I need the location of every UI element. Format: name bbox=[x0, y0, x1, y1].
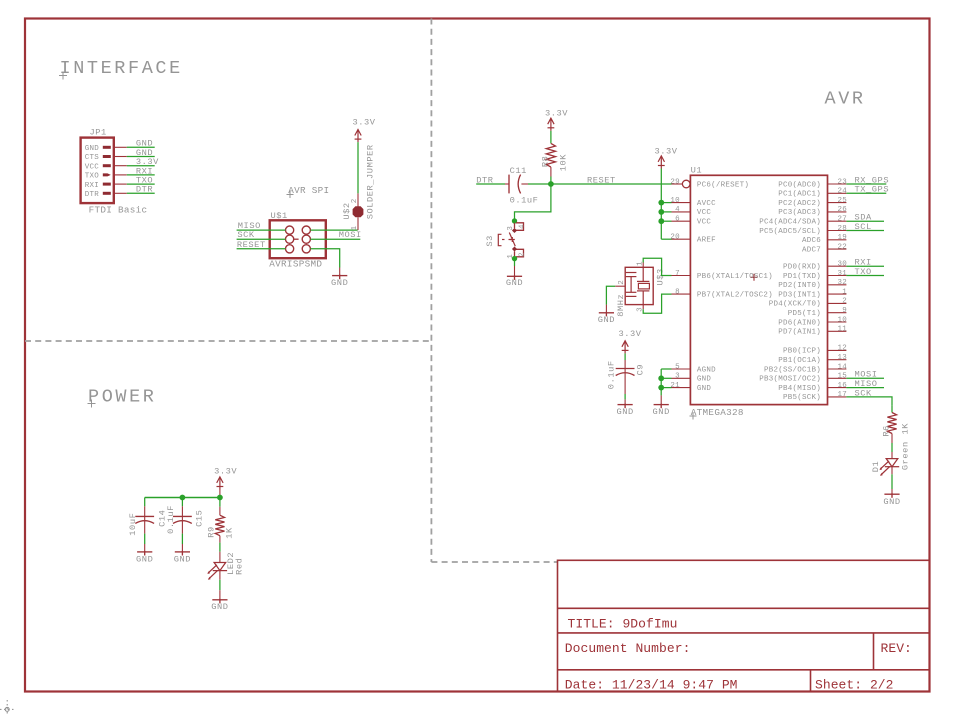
svg-text:4: 4 bbox=[675, 206, 680, 214]
svg-text:PD7(AIN1): PD7(AIN1) bbox=[778, 329, 821, 337]
JP1 pin CTS stub bbox=[114, 156, 127, 158]
svg-text:RXI: RXI bbox=[85, 182, 99, 190]
svg-text:GND: GND bbox=[211, 602, 228, 612]
svg-text:GND: GND bbox=[598, 315, 615, 325]
svg-text:R9: R9 bbox=[207, 526, 217, 538]
junction bbox=[217, 495, 223, 501]
resonator U$3 outline bbox=[625, 267, 653, 304]
U1 pin 30 PD0(RXD) stub bbox=[828, 265, 847, 267]
wire rail to AREF bbox=[661, 238, 671, 240]
wire net SCL bbox=[846, 230, 884, 232]
svg-text:3: 3 bbox=[675, 373, 680, 381]
svg-text:30: 30 bbox=[837, 261, 847, 269]
solder jumper U$2 pad bbox=[353, 206, 364, 217]
svg-text:14: 14 bbox=[837, 363, 847, 371]
gnd stub C14 bbox=[144, 544, 146, 552]
JP1 pin GND contact bbox=[103, 146, 111, 149]
svg-text:15: 15 bbox=[837, 373, 847, 381]
svg-text:PD4(XCK/T0): PD4(XCK/T0) bbox=[769, 301, 821, 309]
wire R9 to LED2 bbox=[219, 536, 221, 543]
switch S3 bottom contact bbox=[515, 249, 524, 256]
JP1 pin VCC contact bbox=[103, 164, 111, 167]
U1 pin 3 GND stub bbox=[672, 377, 691, 379]
svg-text:3.3V: 3.3V bbox=[545, 109, 568, 119]
wire C14 to gnd bbox=[144, 534, 146, 544]
svg-text:ADC6: ADC6 bbox=[802, 237, 821, 245]
svg-text:10uF: 10uF bbox=[128, 513, 138, 536]
wire net MISO bbox=[846, 387, 884, 389]
svg-text:0.1uF: 0.1uF bbox=[510, 196, 539, 206]
wire U$3 pin2 to gnd bbox=[615, 285, 625, 287]
wire power bus bbox=[145, 497, 220, 499]
svg-text:PD6(AIN0): PD6(AIN0) bbox=[778, 319, 821, 327]
U1 pin 17 PB5(SCK) stub bbox=[828, 396, 847, 398]
svg-text:21: 21 bbox=[670, 382, 680, 390]
U1 pin 13 PB1(OC1A) stub bbox=[828, 359, 847, 361]
gnd stub S3 bbox=[514, 266, 516, 276]
svg-text:U$2: U$2 bbox=[342, 202, 352, 219]
U$1 pin pad bbox=[302, 245, 310, 253]
wire gnd stub bbox=[339, 268, 341, 276]
JP1 pin RXI contact bbox=[103, 183, 111, 186]
U1 pin 15 PB3(MOSI/OC2) stub bbox=[828, 377, 847, 379]
U1 pin 31 PD1(TXD) stub bbox=[828, 275, 847, 277]
svg-text:1K: 1K bbox=[900, 423, 910, 435]
svg-text:PB4(MISO): PB4(MISO) bbox=[778, 385, 821, 393]
svg-text:31: 31 bbox=[837, 270, 847, 278]
U1 pin 6 VCC stub bbox=[672, 220, 691, 222]
wire 3.3V rail bbox=[660, 169, 662, 240]
capacitor C11 lead right bbox=[521, 183, 528, 185]
svg-text:1K: 1K bbox=[225, 527, 235, 539]
wire bus to C15 bbox=[181, 498, 183, 507]
wire C9 to gnd bbox=[624, 385, 626, 394]
U1 pin 4 VCC stub bbox=[672, 211, 691, 213]
svg-text:0.1uF: 0.1uF bbox=[607, 360, 617, 389]
svg-text:JP1: JP1 bbox=[90, 128, 107, 138]
svg-text:GND: GND bbox=[697, 385, 712, 393]
svg-text:2: 2 bbox=[518, 252, 526, 257]
solder jumper U$2 pin 1 stub bbox=[357, 217, 359, 230]
capacitor C11 bbox=[509, 175, 521, 194]
svg-text:1: 1 bbox=[351, 225, 359, 230]
wire U$3 pin1 to XTAL1 bbox=[642, 263, 644, 268]
svg-text:VCC: VCC bbox=[85, 163, 100, 171]
ground symbol C14 bbox=[137, 551, 152, 556]
wire C15 to gnd bbox=[181, 534, 183, 544]
wire SCK to R6 bbox=[891, 405, 893, 412]
svg-text:GND: GND bbox=[506, 278, 523, 288]
wire 3.3V to jumper bbox=[357, 142, 359, 193]
wire 3.3V down to bus bbox=[219, 490, 221, 498]
junction bbox=[658, 375, 664, 381]
wire R6 to D1 bbox=[891, 434, 893, 444]
svg-text:PC1(ADC1): PC1(ADC1) bbox=[778, 191, 821, 199]
junction bbox=[658, 218, 664, 224]
svg-text:22: 22 bbox=[837, 243, 847, 251]
wire U$1 pin2 to solder jumper bbox=[310, 229, 357, 231]
svg-text:GND: GND bbox=[653, 407, 670, 417]
svg-text:POWER: POWER bbox=[88, 387, 157, 408]
svg-text:3.3V: 3.3V bbox=[618, 329, 641, 339]
wire 3.3V to R8 bbox=[550, 131, 552, 144]
svg-text:25: 25 bbox=[837, 197, 847, 205]
svg-text:8: 8 bbox=[675, 288, 680, 296]
svg-text:PB2(SS/OC1B): PB2(SS/OC1B) bbox=[764, 366, 821, 374]
resistor R9 bbox=[215, 515, 224, 536]
svg-text:GND: GND bbox=[331, 278, 348, 288]
svg-text:C9: C9 bbox=[635, 364, 645, 376]
svg-text:ADC7: ADC7 bbox=[802, 246, 821, 254]
U1 pin 8 PB7(XTAL2/TOSC2) stub bbox=[672, 293, 691, 295]
gnd stub LED2 bbox=[219, 590, 221, 600]
section divider horizontal interface/power bbox=[25, 340, 431, 342]
U1 pin 2 PD4(XCK/T0) stub bbox=[828, 302, 847, 304]
svg-text:10: 10 bbox=[837, 316, 847, 324]
svg-text:Sheet: 2/2: Sheet: 2/2 bbox=[815, 678, 894, 693]
wire U$3 pin3 to XTAL2 bbox=[642, 305, 644, 310]
wire rail to AVCC bbox=[661, 202, 671, 204]
U$1 pin pad bbox=[286, 235, 294, 243]
svg-text:PB1(OC1A): PB1(OC1A) bbox=[778, 357, 821, 365]
svg-text:10K: 10K bbox=[558, 154, 568, 172]
svg-text:13: 13 bbox=[837, 354, 847, 362]
svg-text:VCC: VCC bbox=[697, 219, 712, 227]
svg-text:7: 7 bbox=[675, 270, 680, 278]
U1 pin 1 PD3(INT1) stub bbox=[828, 293, 847, 295]
ic U1 outline bbox=[690, 175, 827, 404]
svg-text:GND: GND bbox=[174, 555, 191, 565]
svg-text:PD3(INT1): PD3(INT1) bbox=[778, 291, 821, 299]
JP1 pin DTR contact bbox=[103, 192, 111, 195]
svg-text:19: 19 bbox=[837, 234, 847, 242]
wire SCK bbox=[237, 238, 286, 240]
junction bbox=[512, 218, 517, 223]
svg-text:U$3: U$3 bbox=[655, 268, 665, 285]
svg-text:R6: R6 bbox=[882, 425, 892, 437]
U1 pin 24 PC1(ADC1) stub bbox=[828, 192, 847, 194]
U1 pin 29 PC6(/RESET) stub bbox=[672, 183, 683, 185]
gnd stub U$3 bbox=[605, 305, 607, 313]
U1 pin 20 AREF stub bbox=[672, 238, 691, 240]
wire net DTR bbox=[127, 192, 155, 194]
U1 pin 16 PB4(MISO) stub bbox=[828, 387, 847, 389]
origin crosshair marker bbox=[0, 700, 16, 715]
svg-text:SOLDER_JUMPER: SOLDER_JUMPER bbox=[366, 144, 376, 219]
ground symbol bbox=[332, 275, 347, 280]
svg-text:PB6(XTAL1/TOSC1): PB6(XTAL1/TOSC1) bbox=[697, 273, 773, 281]
svg-text:Date: 11/23/14 9:47 PM: Date: 11/23/14 9:47 PM bbox=[565, 678, 738, 693]
supply 3.3V symbol R8 bbox=[548, 118, 555, 131]
wire gnd bus pin3 bbox=[661, 377, 671, 379]
svg-text:3: 3 bbox=[507, 226, 515, 231]
svg-text:PB7(XTAL2/TOSC2): PB7(XTAL2/TOSC2) bbox=[697, 291, 773, 299]
svg-text:AVR: AVR bbox=[825, 89, 866, 110]
svg-text:2: 2 bbox=[842, 298, 847, 306]
U1 pin 14 PB2(SS/OC1B) stub bbox=[828, 368, 847, 370]
title block frame bbox=[558, 560, 930, 691]
svg-text:16: 16 bbox=[837, 382, 847, 390]
led D1 lead bbox=[891, 452, 893, 459]
svg-text:PB5(SCK): PB5(SCK) bbox=[783, 394, 821, 402]
wire 3.3V to C9 bbox=[624, 353, 626, 360]
svg-text:R8: R8 bbox=[541, 156, 551, 168]
svg-text:REV:: REV: bbox=[881, 641, 912, 656]
svg-text:RESET: RESET bbox=[587, 175, 616, 185]
svg-text:3.3V: 3.3V bbox=[654, 146, 677, 156]
svg-text:GND: GND bbox=[85, 145, 100, 153]
resonator U$3 crystal bbox=[637, 267, 649, 304]
svg-text:29: 29 bbox=[670, 178, 680, 186]
U1 pin 11 PD7(AIN1) stub bbox=[828, 330, 847, 332]
JP1 pin GND stub bbox=[114, 146, 127, 148]
JP1 pin TXO contact bbox=[103, 173, 111, 176]
svg-text:AREF: AREF bbox=[697, 237, 716, 245]
svg-text:11: 11 bbox=[837, 326, 847, 334]
svg-text:GND: GND bbox=[136, 555, 153, 565]
svg-text:INTERFACE: INTERFACE bbox=[60, 58, 183, 79]
supply 3.3V symbol C9 bbox=[622, 341, 629, 354]
svg-text:DTR: DTR bbox=[136, 185, 153, 195]
junction bbox=[658, 385, 664, 391]
U1 pin 9 PD5(T1) stub bbox=[828, 312, 847, 314]
switch S3 top contact bbox=[515, 223, 524, 231]
capacitor C15 bbox=[173, 516, 192, 523]
JP1 pin RXI stub bbox=[114, 183, 127, 185]
junction bbox=[658, 209, 664, 215]
wire net GND bbox=[127, 156, 155, 158]
svg-text:MOSI: MOSI bbox=[339, 230, 362, 240]
svg-text:PC0(ADC0): PC0(ADC0) bbox=[778, 181, 821, 189]
svg-text:AGND: AGND bbox=[697, 366, 716, 374]
U1 pin 27 PC4(ADC4/SDA) stub bbox=[828, 220, 847, 222]
U1 pin 25 PC2(ADC2) stub bbox=[828, 202, 847, 204]
switch S3 actuator bbox=[498, 233, 515, 247]
svg-text:D1: D1 bbox=[871, 461, 881, 473]
svg-text:AVR SPI: AVR SPI bbox=[288, 185, 329, 196]
JP1 pin DTR stub bbox=[114, 192, 127, 194]
ground symbol S3 bbox=[507, 275, 522, 280]
wire gnd bus pin21 bbox=[661, 387, 671, 389]
svg-text:FTDI Basic: FTDI Basic bbox=[89, 204, 148, 215]
connector U$1 outline bbox=[270, 220, 326, 258]
wire RESET to U$1 bbox=[237, 248, 286, 250]
U1 pin 21 GND stub bbox=[672, 387, 691, 389]
section divider vertical bbox=[430, 19, 432, 563]
wire net TXO bbox=[846, 275, 884, 277]
gnd stub bus bbox=[660, 395, 662, 404]
U1 pin 12 PB0(ICP) stub bbox=[828, 349, 847, 351]
svg-text:ATMEGA328: ATMEGA328 bbox=[691, 407, 744, 418]
svg-text:12: 12 bbox=[837, 345, 847, 353]
svg-text:CTS: CTS bbox=[85, 154, 100, 162]
svg-text:PB3(MOSI/OC2): PB3(MOSI/OC2) bbox=[759, 376, 821, 384]
svg-text:PD2(INT0): PD2(INT0) bbox=[778, 282, 821, 290]
svg-text:Document Number:: Document Number: bbox=[565, 641, 691, 656]
wire R8 to junction bbox=[550, 167, 552, 176]
wire LED2 to gnd bbox=[219, 571, 221, 580]
svg-text:C11: C11 bbox=[510, 166, 527, 176]
ground symbol C9 bbox=[618, 404, 633, 409]
svg-text:9: 9 bbox=[842, 307, 847, 315]
U1 pin 26 PC3(ADC3) stub bbox=[828, 211, 847, 213]
U$1 pin pad bbox=[286, 226, 294, 234]
supply 3.3V symbol power bbox=[217, 477, 224, 490]
svg-text:24: 24 bbox=[837, 188, 847, 196]
wire gnd bus pin5 bbox=[661, 368, 671, 370]
svg-text:26: 26 bbox=[837, 206, 847, 214]
svg-text:20: 20 bbox=[670, 234, 680, 242]
resonator U$3 internal caps bbox=[626, 273, 637, 297]
connector JP1 outline bbox=[81, 138, 114, 204]
svg-text:PC6(/RESET): PC6(/RESET) bbox=[697, 181, 749, 189]
wire RESET bbox=[528, 183, 672, 185]
svg-text:PD1(TXD): PD1(TXD) bbox=[783, 273, 821, 281]
ground symbol U$3 bbox=[599, 312, 614, 317]
capacitor C14 lead bbox=[144, 506, 146, 533]
svg-text:1: 1 bbox=[842, 288, 847, 296]
solder jumper U$2 pin 2 stub bbox=[357, 193, 359, 206]
ground symbol bus bbox=[654, 404, 669, 409]
svg-text:GND: GND bbox=[883, 497, 900, 507]
svg-text:GND: GND bbox=[697, 376, 712, 384]
wire net SCK bbox=[846, 397, 892, 405]
wire U$1 pin6 to ground bbox=[310, 249, 339, 268]
svg-text:5: 5 bbox=[675, 363, 680, 371]
wire MISO bbox=[237, 229, 286, 231]
U1 pin 23 PC0(ADC0) stub bbox=[828, 183, 847, 185]
wire net TX_GPS bbox=[846, 192, 886, 194]
ic U1 origin cross bbox=[751, 274, 758, 281]
junction bbox=[180, 495, 186, 501]
svg-text:PD0(RXD): PD0(RXD) bbox=[783, 264, 821, 272]
svg-text:0.1uF: 0.1uF bbox=[166, 505, 176, 534]
U1 pin 10 PD6(AIN0) stub bbox=[828, 321, 847, 323]
svg-text:8MHz: 8MHz bbox=[616, 294, 626, 317]
svg-text:C15: C15 bbox=[194, 510, 204, 527]
U1 pin 5 AGND stub bbox=[672, 368, 691, 370]
U$1 pin pad bbox=[302, 226, 310, 234]
U1 pin 22 ADC7 stub bbox=[828, 248, 847, 250]
capacitor C9 bbox=[616, 369, 635, 376]
wire net RXI bbox=[127, 174, 155, 176]
wire net RX_GPS bbox=[846, 183, 886, 185]
wire bus to C14 bbox=[144, 498, 146, 507]
svg-text:AVCC: AVCC bbox=[697, 200, 716, 208]
U$1 pad column links bbox=[290, 234, 307, 239]
wire net MOSI bbox=[846, 377, 884, 379]
wire S3 to gnd bbox=[514, 259, 516, 266]
wire net TXO bbox=[127, 183, 155, 185]
svg-text:VCC: VCC bbox=[697, 209, 712, 217]
U1 pin 10 AVCC stub bbox=[672, 202, 691, 204]
svg-text:Red: Red bbox=[235, 558, 245, 575]
wire bus to R9 bbox=[219, 498, 221, 507]
ground symbol LED2 bbox=[212, 599, 227, 604]
wire rail to VCC6 bbox=[661, 220, 671, 222]
U1 pin 28 PC5(ADC5/SCL) stub bbox=[828, 230, 847, 232]
svg-text:GND: GND bbox=[616, 407, 633, 417]
svg-text:32: 32 bbox=[837, 279, 847, 287]
svg-text:17: 17 bbox=[837, 391, 847, 399]
JP1 pin CTS contact bbox=[103, 155, 111, 158]
wire net 3.3V bbox=[127, 165, 155, 167]
svg-text:2: 2 bbox=[618, 280, 626, 285]
svg-text:PC5(ADC5/SCL): PC5(ADC5/SCL) bbox=[759, 228, 821, 236]
svg-text:PC3(ADC3): PC3(ADC3) bbox=[778, 209, 821, 217]
JP1 pin VCC stub bbox=[114, 165, 127, 167]
svg-text:23: 23 bbox=[837, 178, 847, 186]
svg-text:PC4(ADC4/SDA): PC4(ADC4/SDA) bbox=[759, 219, 821, 227]
U$1 pin pad bbox=[302, 235, 310, 243]
junction bbox=[512, 256, 517, 261]
led LED2 bbox=[207, 563, 227, 580]
svg-text:U1: U1 bbox=[691, 166, 703, 176]
svg-text:AVRISPSMD: AVRISPSMD bbox=[269, 259, 322, 270]
U1 pin 19 ADC6 stub bbox=[828, 239, 847, 241]
svg-text:S3: S3 bbox=[485, 235, 495, 247]
svg-text:TITLE: 9DofImu: TITLE: 9DofImu bbox=[568, 616, 678, 631]
svg-text:PB0(ICP): PB0(ICP) bbox=[783, 348, 821, 356]
svg-text:PC2(ADC2): PC2(ADC2) bbox=[778, 200, 821, 208]
svg-text:TXO: TXO bbox=[855, 267, 872, 277]
resistor R9 lead bbox=[219, 507, 221, 515]
U$1 pin pad bbox=[286, 245, 294, 253]
gnd stub C15 bbox=[181, 544, 183, 552]
svg-text:SCL: SCL bbox=[855, 222, 872, 232]
svg-text:SCK: SCK bbox=[237, 230, 255, 240]
svg-text:DTR: DTR bbox=[85, 191, 100, 199]
supply 3.3V symbol bbox=[355, 130, 362, 143]
capacitor C11 lead left bbox=[505, 183, 509, 185]
junction bbox=[548, 181, 554, 187]
svg-text:3.3V: 3.3V bbox=[214, 466, 237, 476]
ground symbol C15 bbox=[175, 551, 190, 556]
svg-text:TXO: TXO bbox=[85, 173, 100, 181]
U1 pin 32 PD2(INT0) stub bbox=[828, 284, 847, 286]
led LED2 lead bbox=[219, 552, 221, 563]
wire MOSI bbox=[310, 238, 360, 240]
wire junction to S3 bbox=[515, 184, 551, 221]
U1 pin 7 PB6(XTAL1/TOSC1) stub bbox=[672, 275, 691, 277]
svg-text:SCK: SCK bbox=[855, 388, 873, 398]
svg-text:TX_GPS: TX_GPS bbox=[855, 185, 890, 195]
wire net GND bbox=[127, 146, 155, 148]
JP1 pin TXO stub bbox=[114, 174, 127, 176]
gnd stub C9 bbox=[624, 399, 626, 404]
resistor R8 bbox=[546, 143, 555, 167]
svg-text:4: 4 bbox=[518, 224, 526, 229]
svg-text:3.3V: 3.3V bbox=[352, 117, 375, 127]
svg-text:U$1: U$1 bbox=[271, 211, 288, 221]
wire gnd bus vertical bbox=[660, 369, 662, 395]
led D1 bbox=[879, 459, 899, 476]
supply 3.3V symbol AVCC bbox=[658, 156, 665, 169]
svg-text:RESET: RESET bbox=[237, 240, 266, 250]
svg-text:PD5(T1): PD5(T1) bbox=[788, 310, 821, 318]
capacitor C14 bbox=[135, 516, 154, 523]
svg-text:10: 10 bbox=[670, 197, 680, 205]
capacitor C15 lead bbox=[181, 506, 183, 533]
wire net SDA bbox=[846, 220, 884, 222]
resistor R6 bbox=[887, 413, 896, 434]
wire DTR bbox=[476, 183, 505, 185]
svg-text:Green: Green bbox=[900, 441, 910, 470]
junction bbox=[658, 200, 664, 206]
gnd stub D1 bbox=[891, 489, 893, 494]
section divider horizontal to title block bbox=[431, 561, 557, 563]
svg-text:6: 6 bbox=[675, 216, 680, 224]
